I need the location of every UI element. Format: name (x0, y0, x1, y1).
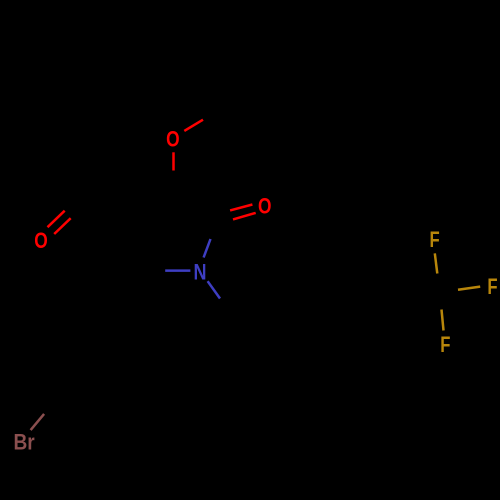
svg-text:F: F (430, 227, 440, 252)
svg-text:N: N (194, 259, 207, 284)
svg-text:F: F (440, 332, 450, 357)
svg-text:O: O (34, 228, 48, 253)
svg-text:O: O (258, 193, 272, 218)
svg-text:Br: Br (14, 429, 36, 454)
svg-text:F: F (487, 274, 497, 299)
svg-text:O: O (166, 126, 180, 151)
